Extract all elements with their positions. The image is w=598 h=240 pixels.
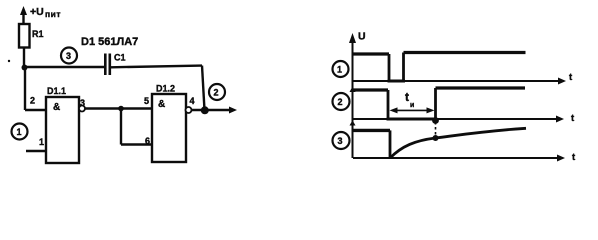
- svg-text:2: 2: [30, 96, 35, 106]
- svg-text:1: 1: [337, 65, 342, 75]
- svg-text:и: и: [410, 102, 414, 109]
- svg-text:4: 4: [190, 96, 195, 106]
- svg-text:+U: +U: [30, 6, 44, 18]
- svg-text:R1: R1: [32, 29, 44, 39]
- svg-text:2: 2: [338, 97, 343, 107]
- svg-text:&: &: [53, 102, 60, 113]
- svg-text:6: 6: [145, 136, 150, 146]
- svg-text:D1 561ЛА7: D1 561ЛА7: [81, 36, 138, 48]
- svg-text:2: 2: [214, 88, 219, 98]
- svg-text:t: t: [405, 90, 409, 104]
- svg-text:D1.1: D1.1: [47, 86, 66, 96]
- svg-text:&: &: [158, 99, 165, 110]
- svg-text:1: 1: [17, 127, 22, 137]
- svg-text:3: 3: [66, 51, 71, 61]
- svg-text:3: 3: [80, 98, 85, 108]
- svg-text:5: 5: [144, 96, 149, 106]
- svg-text:D1.2: D1.2: [156, 84, 175, 94]
- svg-text:U: U: [358, 31, 366, 43]
- svg-text:3: 3: [338, 136, 343, 146]
- svg-text:пит: пит: [45, 9, 61, 19]
- svg-text:1: 1: [39, 137, 44, 147]
- svg-text:C1: C1: [114, 53, 126, 63]
